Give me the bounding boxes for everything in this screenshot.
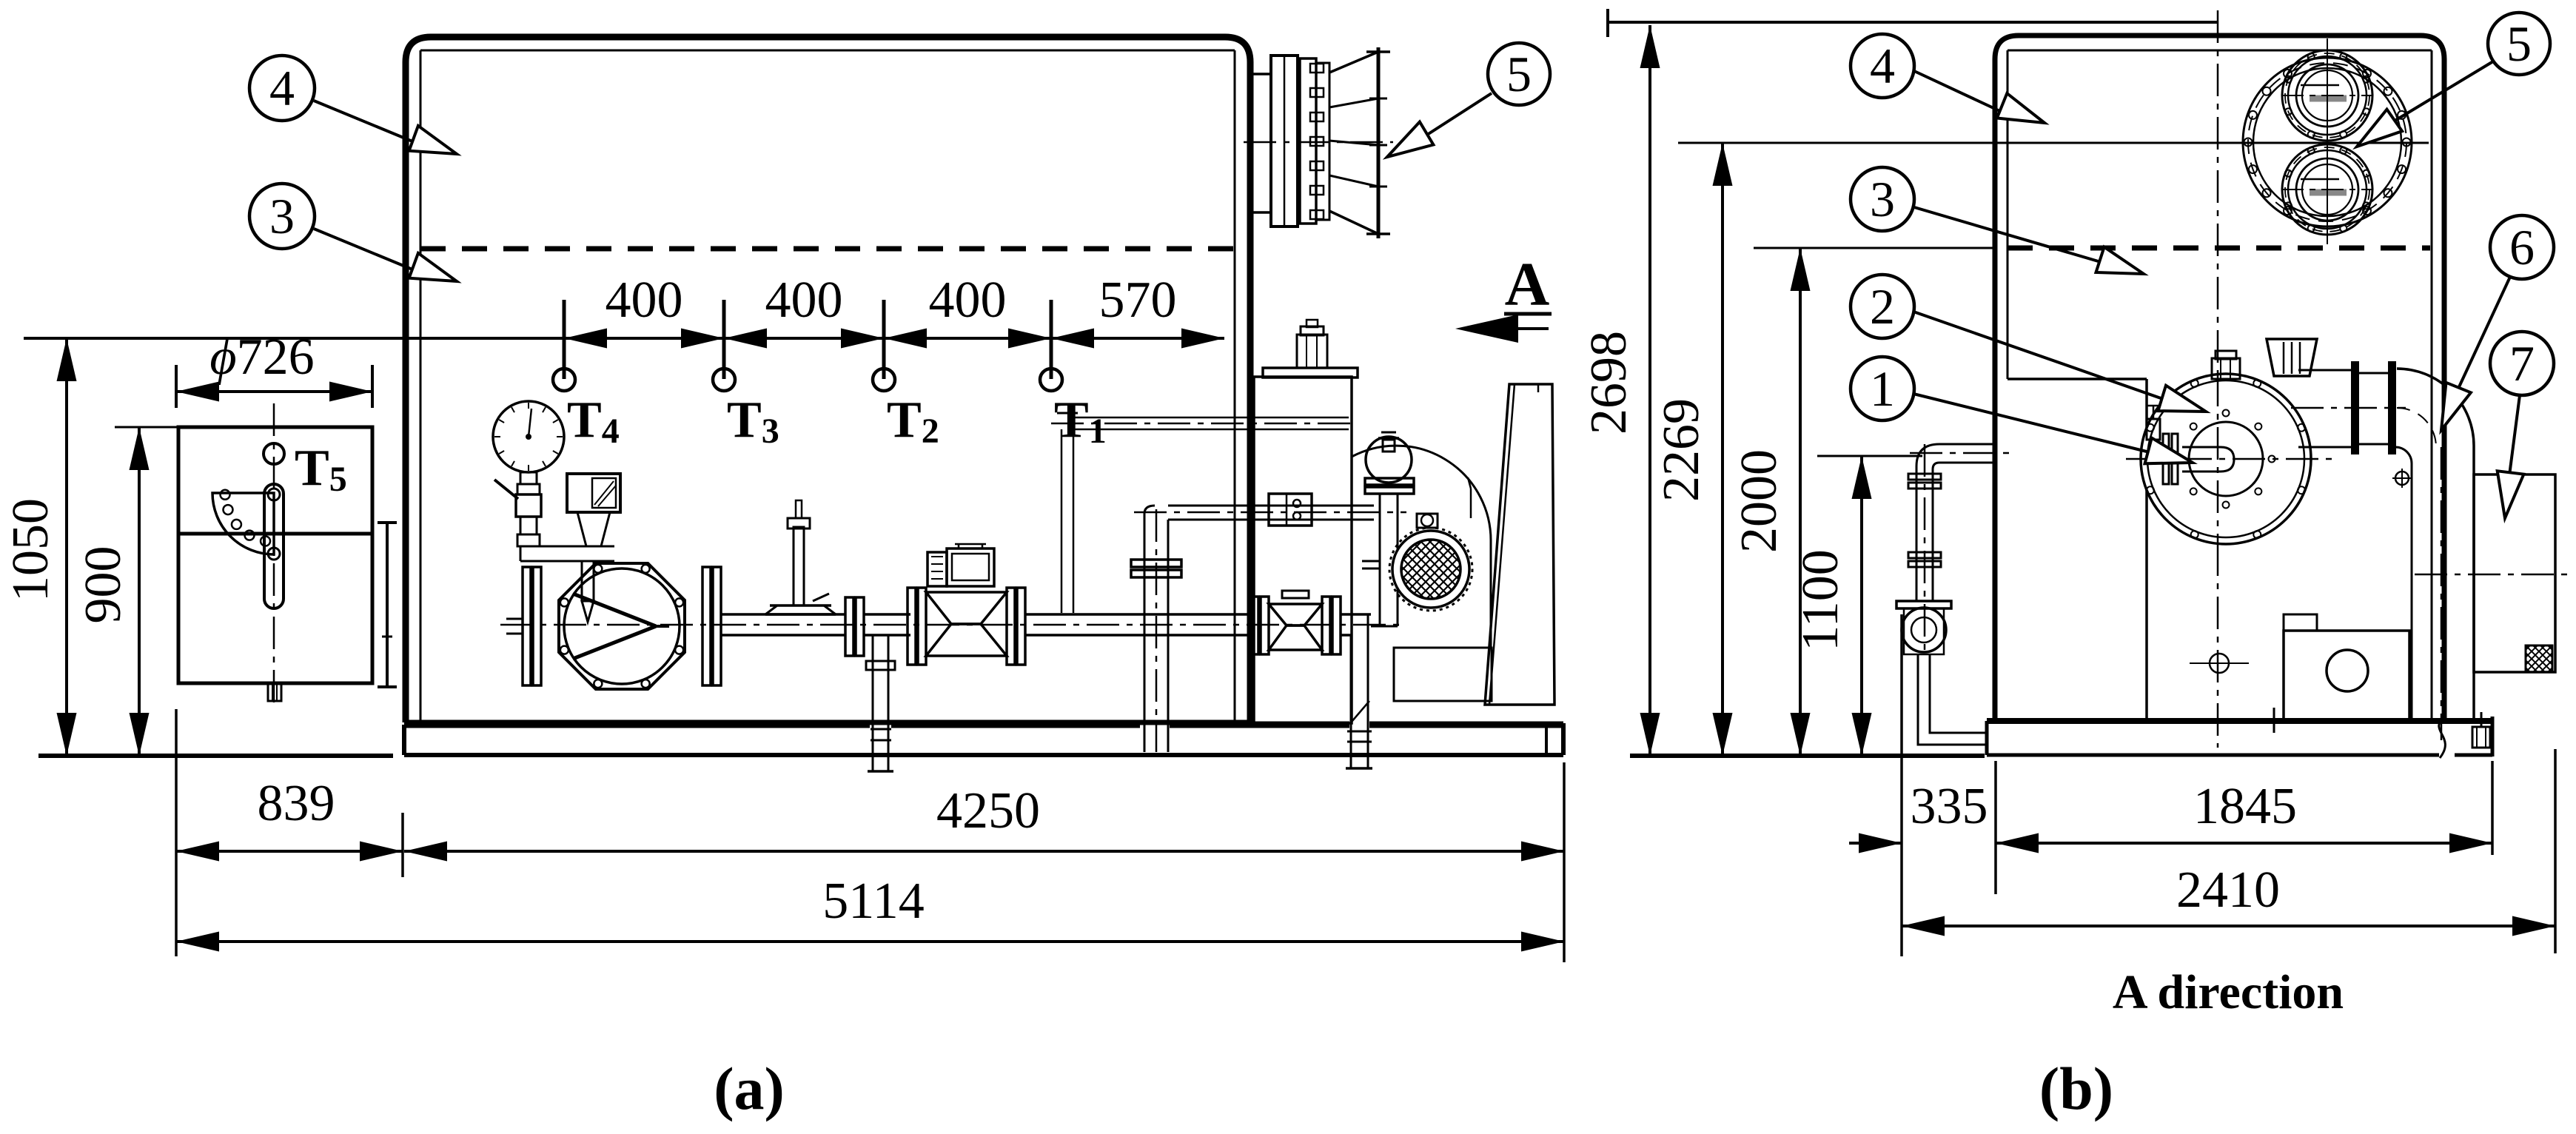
burner vertical centerline segment: [2217, 374, 2219, 544]
svg-text:400: 400: [765, 272, 843, 329]
duct support line: [1470, 489, 1472, 518]
feed pipe flange pair upper: [1908, 474, 1941, 480]
feed pipe centerline vertical: [1924, 444, 1926, 654]
pipe regulator area: [1025, 613, 1250, 616]
water level dashed line (view b): [2008, 246, 2430, 251]
exhaust elbow inner arc: [2395, 447, 2412, 463]
small igniter valve: [2147, 419, 2160, 440]
svg-text:2: 2: [1870, 278, 1895, 335]
callout circle 4 (view a): [249, 56, 315, 121]
damper quadrant sector with holes: [212, 493, 274, 554]
dimension 839 extension lines: [175, 709, 178, 956]
pump body circle: [1902, 608, 1946, 652]
leader for callout 1 view b: [1913, 394, 2150, 452]
svg-text:2698: 2698: [1580, 331, 1637, 435]
air box circle opening: [2327, 650, 2368, 691]
solenoid valve left flange: [908, 588, 916, 665]
callout circle 2 (view b): [1851, 275, 1914, 338]
dimension 1100 vertical line: [1860, 456, 1863, 756]
leader for callout 4 view b: [1914, 71, 2003, 113]
burner gas inlet flange bars: [2163, 434, 2169, 484]
riser centerline: [1155, 509, 1158, 752]
dimension 4250 line: [404, 850, 1564, 853]
pipe to rear elbow: [1341, 613, 1371, 616]
svg-text:6: 6: [2509, 219, 2535, 275]
callout circle 7 (view b): [2490, 332, 2554, 395]
air damper knob trapezoid: [2267, 339, 2317, 376]
solenoid valve body: [926, 592, 1007, 624]
rear drop pipe: [1350, 635, 1352, 752]
cover ring bolts: [2363, 70, 2371, 78]
damper rod right of economizer: [386, 523, 389, 687]
svg-text:400: 400: [929, 272, 1007, 329]
svg-text:4: 4: [1870, 38, 1895, 94]
burner door bolts: [2269, 456, 2275, 463]
extension line at skid left (view b): [1994, 761, 1997, 894]
svg-text:4250: 4250: [936, 782, 1040, 839]
extension line at box right (view b): [2554, 749, 2557, 953]
dimension 2000 vertical line: [1799, 248, 1802, 756]
ground line under economizer (view a): [38, 754, 393, 758]
leader for callout 7 view b: [2509, 395, 2520, 475]
box centerline dash-dot: [2415, 574, 2575, 576]
front plate step line: [2008, 378, 2147, 380]
burner outlet duct to elbow: [2298, 369, 2352, 372]
flue outlet end bar: [1377, 47, 1381, 238]
drain cross fitting: [2210, 654, 2229, 673]
thermocouple T4 symbol: [553, 369, 575, 391]
svg-text:2269: 2269: [1653, 398, 1710, 502]
svg-text:ϕ726: ϕ726: [209, 329, 314, 386]
reference line 1100 level: [1817, 455, 1922, 457]
middle pipe riser: [1144, 514, 1146, 752]
flue outlet cone lines: [1329, 52, 1378, 73]
feed pipe vertical: [1916, 466, 1918, 601]
callout circle 5 (view a): [1488, 43, 1550, 105]
svg-text:(a): (a): [714, 1055, 785, 1122]
svg-text:A direction: A direction: [2113, 965, 2344, 1019]
svg-text:7: 7: [2509, 335, 2535, 392]
dimension 2269 vertical line: [1721, 143, 1724, 756]
burner gas valve at tank wall: [1250, 597, 1258, 654]
duct flange bars (filled): [2352, 362, 2358, 454]
dimension phi726 line with arrows: [176, 390, 372, 393]
ball riser pipe: [1379, 494, 1381, 626]
dimension 335 outside arrow: [1849, 842, 1902, 845]
svg-text:2000: 2000: [1731, 449, 1788, 553]
anchor cross tick on skid: [2265, 719, 2284, 721]
small pipe flange pair: [845, 597, 853, 656]
callout circle 3 (view a): [249, 184, 315, 249]
expansion ball on riser pipe: [1366, 437, 1412, 483]
ball riser flange: [1365, 478, 1414, 485]
burner mounting bolts: [2298, 486, 2305, 494]
svg-text:2410: 2410: [2176, 862, 2280, 919]
burner horizontal centerline: [2126, 458, 2332, 460]
svg-text:400: 400: [606, 272, 683, 329]
base skid (view b): [1987, 718, 2492, 724]
svg-text:5: 5: [2506, 16, 2532, 72]
gauge impulse pipe: [520, 546, 614, 548]
pressure regulator spindle: [794, 527, 804, 605]
thermocouple T3 symbol: [713, 369, 735, 391]
callout circle 3 (view b): [1851, 167, 1914, 231]
reference line 2269 level: [1678, 142, 2429, 144]
water level dashed line (view a): [420, 246, 1235, 252]
view direction arrow A: [1464, 327, 1549, 330]
port vertical centerline: [2327, 38, 2328, 244]
fan outlet duct (view a right): [1485, 384, 1554, 705]
combustion air motor outer rim: [1392, 531, 1469, 608]
svg-text:5: 5: [1506, 46, 1532, 102]
lower sight port flange: [2282, 50, 2372, 141]
motor junction box: [1417, 514, 1438, 528]
feed pipe flange pair lower: [1908, 552, 1941, 558]
callout circle 1 (view b): [1851, 357, 1914, 420]
dimension 5114 extension line right: [1563, 762, 1566, 962]
economizer centerline: [273, 403, 275, 703]
port horizontal centerlines: [2281, 95, 2373, 96]
fan scroll casing (view a): [1352, 446, 1491, 541]
economizer mid line: [178, 532, 372, 536]
boiler bottom line (view b): [1995, 719, 2444, 723]
svg-text:3: 3: [1870, 171, 1895, 227]
butterfly valve bolt holes: [675, 646, 683, 654]
burner door circle: [2189, 422, 2263, 496]
svg-text:1845: 1845: [2193, 778, 2297, 835]
feed pipe centerline: [1910, 452, 2013, 454]
butterfly valve flow arrow: [573, 594, 656, 626]
svg-text:(b): (b): [2039, 1055, 2113, 1122]
middle gas pipe horizontal: [1168, 505, 1374, 507]
pump discharge pipe to skid: [1918, 654, 1987, 745]
middle pipe centerline: [1134, 511, 1406, 514]
dimension phi726 extension ticks: [175, 365, 178, 408]
pressure switch stem: [577, 512, 610, 546]
dimension 2698 vertical line: [1648, 25, 1651, 756]
oil tank vent: [1297, 335, 1327, 368]
leader for callout 3 view b: [1914, 207, 2101, 262]
damper lever arm: [264, 484, 284, 608]
motor crosshatched face: [1401, 540, 1460, 599]
elbow bolt cross: [2395, 472, 2409, 485]
dimension 1050 vertical line: [65, 338, 68, 756]
oil tank box (view a): [1254, 377, 1352, 723]
flue connection box (item 7): [2474, 474, 2555, 672]
svg-text:1050: 1050: [2, 498, 59, 602]
leader line for callout 4: [314, 101, 416, 143]
burner front plate outer circle (view b): [2141, 374, 2311, 544]
dimension 5114 line: [176, 940, 1564, 943]
leader for callout 5 view b: [2392, 61, 2493, 122]
gauge valve handle: [494, 480, 518, 499]
tank bottom line (view a): [406, 720, 1250, 725]
fan casing base: [1394, 648, 1492, 701]
svg-text:1100: 1100: [1792, 549, 1849, 651]
pressure switch: [567, 474, 620, 512]
rear smoke chamber cover ring (item 5, view b): [2243, 58, 2412, 227]
overflow riser: [1061, 429, 1063, 613]
svg-text:4: 4: [269, 60, 295, 116]
gas pipe centerline (view a): [500, 624, 1406, 626]
pipe butterfly to small flange: [721, 613, 845, 616]
thermocouple T1 symbol: [1040, 369, 1062, 391]
condensate drop pipe: [872, 635, 874, 755]
dimension 2410 line: [1902, 925, 2555, 927]
svg-text:839: 839: [258, 775, 335, 832]
burner sight tube (item 1 target): [2182, 447, 2234, 472]
hatched anchor pad: [2526, 645, 2552, 672]
riser flange plates: [1131, 560, 1181, 567]
callout circle 4 (view b): [1851, 34, 1914, 98]
leader for callout 6 view b: [2458, 277, 2510, 390]
dimension 839 line: [176, 850, 403, 853]
solenoid valve coil: [928, 552, 947, 586]
economizer box (view a left): [178, 427, 372, 683]
flow meter on middle pipe: [1269, 494, 1312, 526]
pressure regulator base: [765, 613, 836, 616]
svg-text:5114: 5114: [822, 873, 924, 930]
butterfly valve inner circle: [564, 568, 680, 684]
leader line for callout 3: [314, 229, 416, 271]
elbow centerline arc: [2397, 408, 2436, 447]
dimension 900 vertical line: [138, 427, 141, 756]
svg-text:570: 570: [1099, 272, 1177, 329]
thermowell probe into valve: [582, 561, 594, 601]
svg-text:335: 335: [1911, 778, 1988, 835]
ignition transformer knob: [2212, 358, 2240, 379]
overflow pipe from T1 area: [1075, 417, 1349, 419]
solenoid valve right flange: [1007, 588, 1015, 665]
butterfly gas valve octagon body: [559, 563, 685, 689]
leader for callout 2 view b: [1913, 312, 2163, 399]
sensor position dimension chain line 400/400/400/570: [24, 337, 1224, 340]
flue outlet centerline: [1244, 141, 1393, 144]
solenoid valve actuator: [947, 548, 994, 586]
butterfly valve right flange: [702, 567, 711, 685]
burner air box (view b bottom right): [2284, 631, 2409, 721]
skid S-break (view b): [2439, 718, 2446, 758]
pipe stub left of valve: [506, 618, 523, 620]
thermocouple T5 symbol: [264, 443, 284, 464]
gauge valve stack: [520, 472, 537, 484]
feed water pipe elbow (view b left): [1939, 443, 1995, 446]
thermocouple T2 symbol: [873, 369, 895, 391]
dimension 1845 line: [1996, 842, 2492, 845]
pump top plate: [1896, 601, 1951, 608]
tank inner wall lines (view a): [420, 50, 422, 722]
top reference line at 2698 level (view b): [1608, 21, 2218, 24]
svg-text:A: A: [1505, 250, 1550, 319]
pump housing box: [1904, 608, 1944, 654]
callout circle 5 (view b): [2488, 13, 2550, 75]
shell inner lines (view b): [2007, 50, 2009, 379]
svg-text:900: 900: [75, 546, 132, 624]
svg-text:1: 1: [1870, 360, 1895, 417]
base skid (view a): [404, 722, 870, 728]
exhaust elbow outer arc: [2397, 369, 2474, 446]
dimension 335 left extension line: [1900, 614, 1903, 956]
duct centerline horizontal: [2291, 407, 2406, 409]
callout circle 6 (view b): [2490, 215, 2554, 279]
extension line at skid right (view b): [2491, 761, 2494, 855]
boiler tank body (view a) outer shell: [406, 37, 1250, 722]
butterfly valve left flange: [523, 567, 531, 685]
skid anchor bolt detail: [2472, 727, 2490, 748]
ground line (view b): [1630, 754, 1985, 758]
vertical centerline of boiler (view b): [2217, 10, 2219, 748]
reference line 2000 level: [1754, 247, 1995, 249]
leader line for callout 5 view a: [1427, 93, 1492, 135]
flue gas outlet flange stack (item 5, view a): [1250, 73, 1271, 76]
duct cylinder between flanges: [2358, 372, 2389, 375]
boiler shell outline (view b): [1995, 36, 2444, 721]
svg-text:3: 3: [269, 188, 295, 244]
pipe to drop tee: [864, 613, 910, 616]
pressure gauge: [493, 401, 564, 472]
economizer bottom stub: [268, 683, 281, 701]
